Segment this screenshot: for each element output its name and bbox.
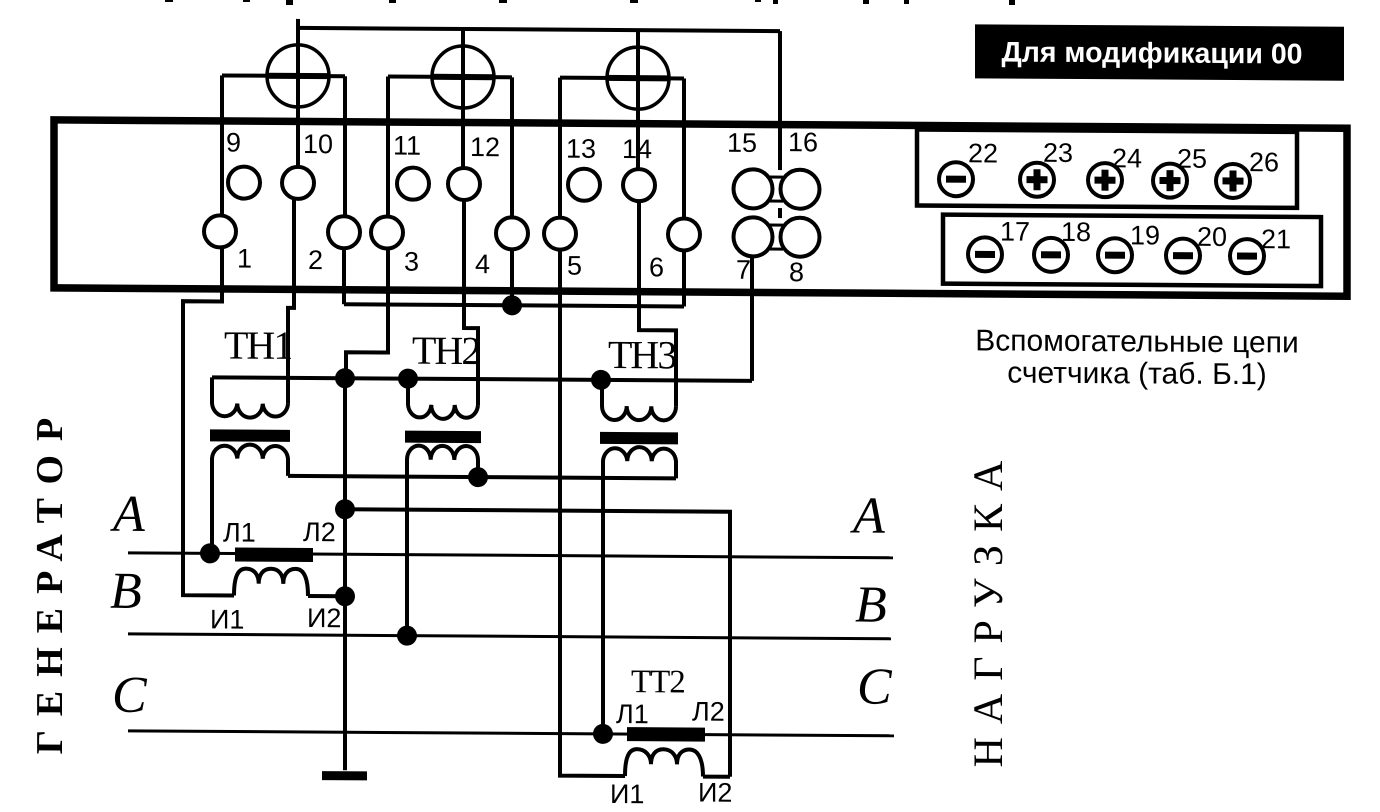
svg-text:12: 12: [470, 132, 500, 162]
svg-text:ТТ2: ТТ2: [631, 664, 685, 700]
svg-text:11: 11: [393, 131, 421, 161]
svg-text:И2: И2: [307, 603, 341, 633]
svg-text:1: 1: [237, 244, 252, 274]
svg-text:4: 4: [475, 249, 490, 279]
svg-text:А: А: [110, 486, 145, 543]
svg-text:17: 17: [1000, 216, 1030, 246]
svg-text:ТН3: ТН3: [608, 332, 676, 377]
svg-text:26: 26: [1249, 147, 1279, 177]
svg-text:3: 3: [404, 247, 419, 277]
svg-text:8: 8: [789, 257, 804, 287]
svg-text:2: 2: [308, 245, 323, 275]
svg-text:23: 23: [1043, 138, 1073, 168]
svg-text:13: 13: [566, 134, 596, 164]
svg-text:И2: И2: [698, 778, 732, 808]
svg-text:А: А: [850, 488, 885, 545]
svg-text:16: 16: [788, 127, 818, 157]
svg-text:25: 25: [1177, 144, 1207, 174]
svg-text:В: В: [110, 563, 142, 620]
svg-text:И1: И1: [210, 604, 244, 634]
svg-text:В: В: [855, 577, 887, 634]
svg-text:6: 6: [649, 252, 664, 282]
svg-text:9: 9: [226, 127, 241, 157]
svg-text:21: 21: [1261, 224, 1291, 254]
svg-text:14: 14: [622, 134, 652, 164]
svg-text:Вспомогательные цепи: Вспомогательные цепи: [975, 324, 1298, 359]
svg-text:Л2: Л2: [303, 517, 336, 547]
svg-text:7: 7: [736, 255, 751, 285]
svg-text:15: 15: [727, 128, 757, 158]
svg-text:ТН2: ТН2: [412, 328, 479, 373]
svg-text:18: 18: [1061, 217, 1091, 247]
svg-text:ТН1: ТН1: [224, 322, 291, 367]
svg-text:С: С: [112, 667, 148, 724]
svg-text:10: 10: [303, 129, 333, 159]
svg-text:Л1: Л1: [223, 517, 256, 547]
svg-text:Л2: Л2: [692, 696, 725, 726]
svg-text:ГЕНЕРАТОР: ГЕНЕРАТОР: [29, 404, 71, 755]
svg-text:19: 19: [1130, 220, 1160, 250]
svg-text:Л1: Л1: [616, 699, 649, 729]
svg-text:НАГРУЗКА: НАГРУЗКА: [966, 447, 1012, 767]
svg-text:24: 24: [1112, 143, 1142, 173]
svg-text:И1: И1: [610, 779, 644, 809]
svg-text:С: С: [857, 659, 893, 716]
svg-text:22: 22: [968, 138, 998, 168]
svg-text:счетчика (таб. Б.1): счетчика (таб. Б.1): [1007, 357, 1267, 392]
svg-text:5: 5: [567, 251, 582, 281]
svg-text:Для модификации 00: Для модификации 00: [1001, 37, 1302, 71]
svg-text:20: 20: [1197, 222, 1227, 252]
